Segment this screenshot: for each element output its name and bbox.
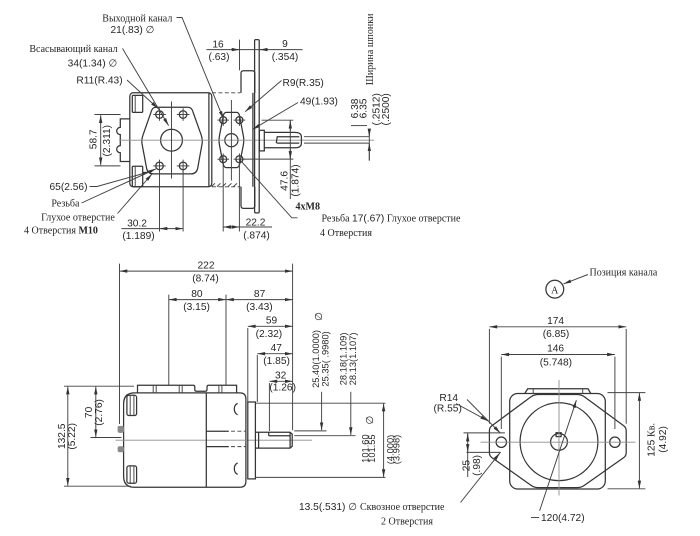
svg-text:(2.32): (2.32) [256,329,283,340]
svg-text:222: 222 [198,260,215,271]
svg-text:65(2.56): 65(2.56) [50,182,88,193]
svg-text:(1.189): (1.189) [122,231,154,242]
svg-text:125 Кв.: 125 Кв. [646,423,657,457]
svg-text:(.354): (.354) [272,52,299,63]
svg-text:25: 25 [461,460,472,472]
svg-text:34(1.34) ∅: 34(1.34) ∅ [68,58,118,69]
svg-text:Резьба: Резьба [51,199,80,210]
svg-text:59: 59 [266,316,278,327]
svg-text:(3.43): (3.43) [246,302,273,313]
svg-text:21(.83) ∅: 21(.83) ∅ [111,25,155,36]
svg-text:58.7: 58.7 [88,129,99,149]
svg-text:(1.85): (1.85) [263,356,290,367]
svg-text:25.35( .9980): 25.35( .9980) [321,331,331,386]
svg-text:Резьба 17(.67) Глухое отверст: Резьба 17(.67) Глухое отверстие [322,214,462,225]
svg-text:28.13(1.107): 28.13(1.107) [348,333,358,386]
svg-text:(3.15): (3.15) [183,302,210,313]
svg-text:Выходной канал: Выходной канал [102,14,172,25]
svg-text:Глухое отверстие: Глухое отверстие [41,213,115,224]
svg-text:25.40(1.0000): 25.40(1.0000) [311,330,321,388]
svg-text:(4.92): (4.92) [658,426,669,453]
svg-text:R11(R.43): R11(R.43) [76,76,122,87]
svg-text:(1.26): (1.26) [269,383,296,394]
svg-text:2 Отверстия: 2 Отверстия [381,517,433,528]
svg-text:9: 9 [282,39,288,50]
svg-text:80: 80 [191,289,203,300]
svg-text:174: 174 [547,316,564,327]
svg-text:∅: ∅ [314,312,325,321]
svg-text:(6.85): (6.85) [543,329,570,340]
svg-text:Позиция канала: Позиция канала [590,268,658,279]
svg-text:(5.22): (5.22) [67,423,78,450]
svg-text:А: А [551,285,559,296]
svg-text:∅: ∅ [365,416,376,425]
svg-text:87: 87 [254,289,266,300]
svg-text:R9(R.35): R9(R.35) [283,78,324,89]
svg-text:4 Отверстия: 4 Отверстия [320,228,372,239]
svg-text:(2.76): (2.76) [94,399,105,426]
svg-text:(2.311): (2.311) [102,125,113,157]
svg-text:(.2500): (.2500) [381,93,392,125]
svg-text:(R.55): (R.55) [434,403,462,414]
svg-text:(.98): (.98) [472,455,483,476]
svg-text:132.5: 132.5 [57,423,68,449]
svg-text:101.55: 101.55 [367,434,377,462]
svg-text:Ширина шпонки: Ширина шпонки [365,13,376,85]
svg-text:16: 16 [212,39,224,50]
svg-text:22.2: 22.2 [246,217,266,228]
svg-text:(5.748): (5.748) [540,357,572,368]
svg-text:(.63): (.63) [209,52,230,63]
svg-text:47.6: 47.6 [279,171,290,191]
svg-text:47: 47 [271,343,283,354]
svg-text:146: 146 [547,344,564,355]
svg-text:32: 32 [275,371,287,382]
svg-text:(3.998): (3.998) [391,435,401,464]
svg-text:(1.874): (1.874) [290,164,301,196]
svg-text:(.874): (.874) [243,230,270,241]
svg-text:120(4.72): 120(4.72) [541,513,585,524]
svg-text:Всасывающий канал: Всасывающий канал [29,44,117,55]
svg-text:(8.74): (8.74) [192,274,219,285]
svg-text:4xM8: 4xM8 [296,202,320,213]
svg-text:6.35: 6.35 [359,98,370,118]
svg-text:13.5(.531) ∅ Сквозное отверс: 13.5(.531) ∅ Сквозное отверстие [299,502,445,513]
svg-text:4 Отверстия М10: 4 Отверстия М10 [24,226,98,237]
svg-text:28.18(1.109): 28.18(1.109) [339,333,349,386]
svg-text:49(1.93): 49(1.93) [300,97,338,108]
svg-text:30.2: 30.2 [127,218,147,229]
